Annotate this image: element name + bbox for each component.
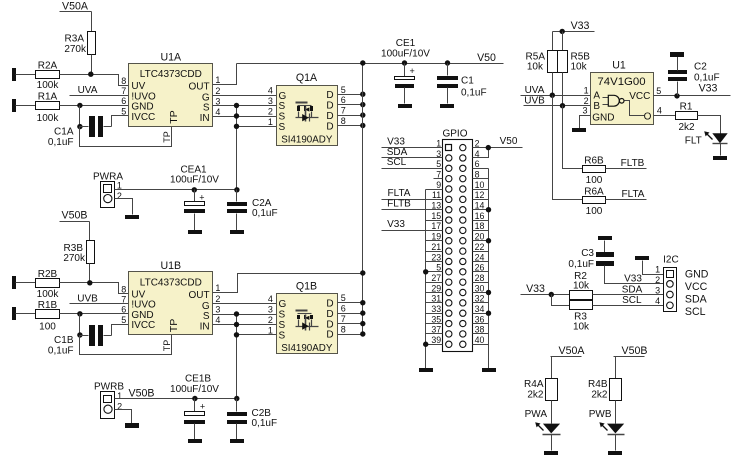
wire V50 rail bbox=[237, 52, 504, 64]
ground LED PWA bbox=[544, 451, 558, 455]
node GPIO pin25 ground bbox=[423, 269, 428, 274]
wire PWRB pin2 to ground bbox=[115, 410, 132, 424]
svg-text:3: 3 bbox=[268, 305, 273, 315]
wire V50B to R4B bbox=[615, 357, 617, 379]
svg-text:V33: V33 bbox=[571, 20, 590, 32]
node GPIO pin14 ground bbox=[486, 207, 491, 212]
U1A pin names bbox=[131, 81, 210, 124]
svg-text:10k: 10k bbox=[527, 61, 544, 72]
svg-text:10k: 10k bbox=[571, 61, 588, 72]
svg-text:7: 7 bbox=[121, 294, 126, 304]
svg-text:S: S bbox=[279, 310, 286, 321]
capacitor C2A 0,1uF bbox=[227, 190, 278, 235]
svg-text:A: A bbox=[593, 91, 600, 102]
node C1B top bbox=[77, 332, 82, 337]
svg-text:V50A: V50A bbox=[62, 0, 89, 12]
node S bus dots B bbox=[234, 311, 239, 337]
svg-text:D: D bbox=[326, 100, 333, 111]
svg-text:1: 1 bbox=[215, 75, 220, 85]
wire S row2 (IN) U1A to Q1A bbox=[213, 116, 277, 118]
svg-text:TP: TP bbox=[168, 319, 180, 332]
LED PWB bbox=[589, 409, 625, 451]
wire V33 to R5B bbox=[562, 32, 564, 51]
resistor R5A 10k bbox=[526, 51, 558, 73]
wire R3A to R2A node bbox=[91, 55, 93, 75]
svg-text:39: 39 bbox=[431, 335, 441, 345]
svg-text:R1B: R1B bbox=[38, 300, 58, 311]
ground U1 bbox=[572, 128, 586, 132]
svg-text:2: 2 bbox=[268, 315, 273, 325]
svg-text:S: S bbox=[279, 101, 286, 112]
connector PWRA bbox=[93, 171, 123, 207]
wire U1 GND pin3 to ground bbox=[580, 116, 591, 129]
svg-text:FLTB: FLTB bbox=[387, 199, 411, 210]
svg-text:4: 4 bbox=[475, 149, 480, 159]
connector GPIO title bbox=[442, 129, 467, 140]
resistor R3B 270k bbox=[63, 241, 94, 265]
svg-text:V50: V50 bbox=[477, 52, 496, 64]
svg-text:V33: V33 bbox=[387, 136, 405, 147]
svg-text:3: 3 bbox=[215, 96, 220, 106]
resistor R6A 100 bbox=[583, 186, 606, 217]
node C1A top bbox=[77, 124, 82, 129]
svg-text:74V1G00: 74V1G00 bbox=[597, 76, 645, 88]
wire R1 to FLT LED bbox=[698, 116, 721, 134]
svg-text:4: 4 bbox=[268, 86, 273, 96]
transistor Q1B SI4190ADY body bbox=[277, 281, 338, 354]
svg-text:28: 28 bbox=[475, 273, 485, 283]
svg-text:SDA: SDA bbox=[685, 293, 708, 305]
svg-text:37: 37 bbox=[431, 325, 441, 335]
svg-text:OUT: OUT bbox=[188, 81, 209, 92]
svg-text:1: 1 bbox=[268, 117, 273, 127]
U1 pin names bbox=[592, 91, 651, 124]
svg-text:16: 16 bbox=[475, 211, 485, 221]
op-amp U1B LTC4373CDD body bbox=[129, 260, 213, 335]
svg-text:4: 4 bbox=[215, 315, 220, 325]
ground GPIO right bbox=[482, 368, 496, 372]
svg-text:2: 2 bbox=[268, 107, 273, 117]
svg-text:8: 8 bbox=[341, 325, 346, 335]
svg-text:V33: V33 bbox=[387, 219, 405, 230]
svg-text:0,1uF: 0,1uF bbox=[568, 259, 594, 270]
svg-text:0,1uF: 0,1uF bbox=[694, 73, 720, 84]
Q1A mosfet symbol bbox=[296, 103, 319, 122]
net label V33 (I2C feed) bbox=[521, 283, 570, 295]
svg-text:14: 14 bbox=[475, 201, 485, 211]
svg-text:2k2: 2k2 bbox=[527, 390, 544, 401]
wire U1 VCC to V33 bbox=[654, 95, 731, 97]
LED PWA bbox=[525, 409, 561, 451]
resistor R1 2k2 bbox=[676, 102, 698, 134]
svg-text:R2A: R2A bbox=[38, 60, 58, 71]
svg-text:100: 100 bbox=[39, 322, 56, 333]
wire I2C pin1 to ground bbox=[643, 261, 664, 275]
svg-text:35: 35 bbox=[431, 314, 441, 324]
wire V50A to R4A bbox=[551, 357, 553, 379]
svg-text:TP: TP bbox=[168, 110, 180, 123]
net label SCL (GPIO pin5) bbox=[387, 157, 407, 168]
svg-text:C2: C2 bbox=[694, 61, 707, 72]
connector stub J-A2 bbox=[12, 99, 36, 112]
svg-text:32: 32 bbox=[475, 294, 485, 304]
svg-text:FLT: FLT bbox=[685, 135, 702, 146]
U1 nand gate symbol bbox=[603, 95, 645, 115]
wire R4A to LED PWA bbox=[551, 401, 553, 424]
net label V50B (PWRB) bbox=[129, 387, 155, 399]
node GPIO pin30 ground bbox=[486, 290, 491, 295]
svg-text:0,1uF: 0,1uF bbox=[252, 418, 278, 429]
svg-text:29: 29 bbox=[431, 283, 441, 293]
svg-text:FLTB: FLTB bbox=[621, 158, 645, 169]
svg-text:100k: 100k bbox=[37, 289, 60, 300]
wire V33 down to R3 bbox=[552, 295, 570, 306]
svg-text:10k: 10k bbox=[573, 321, 590, 332]
node R3B/R2B junction bbox=[87, 280, 92, 285]
net label V33 (VCC) bbox=[699, 83, 718, 95]
wire UVB down to R6B bbox=[563, 106, 583, 169]
capacitor C1B 0,1uF bbox=[48, 325, 129, 357]
wire V50 drain bus vertical bbox=[362, 64, 364, 335]
svg-text:3: 3 bbox=[655, 285, 660, 295]
svg-text:8: 8 bbox=[475, 169, 480, 179]
node R3A/R2A junction bbox=[88, 72, 93, 77]
node R1B/C1B junction bbox=[77, 311, 82, 316]
svg-text:V33: V33 bbox=[526, 283, 545, 295]
svg-text:10k: 10k bbox=[573, 281, 590, 292]
svg-text:V50B: V50B bbox=[129, 387, 155, 399]
power flag V50B (LED) bbox=[614, 345, 648, 357]
Q1B pin numbers bbox=[268, 293, 346, 335]
wire PWRA pin1 to caps bbox=[115, 189, 237, 191]
svg-text:I2C: I2C bbox=[663, 254, 679, 265]
svg-text:R6A: R6A bbox=[584, 186, 604, 197]
svg-text:FLTA: FLTA bbox=[622, 189, 645, 200]
resistor R5B 10k bbox=[558, 51, 591, 73]
svg-text:2: 2 bbox=[117, 191, 122, 201]
svg-text:15: 15 bbox=[431, 211, 441, 221]
svg-text:2k2: 2k2 bbox=[591, 390, 608, 401]
node UVB/R5B junction bbox=[560, 103, 565, 108]
svg-text:GND: GND bbox=[685, 269, 709, 281]
net label V50 (GPIO pin2) bbox=[500, 136, 518, 147]
wire C1A to TP (U1A) bbox=[80, 127, 172, 147]
Q1B pin names bbox=[279, 298, 334, 341]
wire gate G U1A to Q1A bbox=[213, 95, 277, 97]
svg-text:17: 17 bbox=[431, 221, 441, 231]
net label UVA (left) bbox=[70, 85, 129, 96]
resistor R2 10k bbox=[570, 271, 593, 300]
svg-text:B: B bbox=[593, 101, 600, 112]
wire down to C1B bbox=[79, 314, 81, 336]
ground FLT LED bbox=[713, 156, 727, 160]
svg-text:8: 8 bbox=[341, 116, 346, 126]
svg-text:V50: V50 bbox=[500, 136, 518, 147]
ground I2C pin1 bbox=[635, 256, 649, 260]
node drain dots bbox=[360, 92, 365, 129]
wire C1B to TP (U1B) bbox=[80, 335, 172, 355]
svg-text:21: 21 bbox=[431, 242, 441, 252]
svg-text:+: + bbox=[410, 66, 415, 76]
capacitor CE1B 100uF/10V bbox=[170, 374, 219, 443]
label TP (outside U1A) bbox=[162, 131, 172, 143]
node C2A top bbox=[234, 187, 239, 192]
svg-text:7: 7 bbox=[121, 86, 126, 96]
svg-text:TP: TP bbox=[162, 131, 172, 143]
svg-text:GPIO: GPIO bbox=[442, 129, 467, 140]
svg-text:UVA: UVA bbox=[525, 85, 545, 96]
wire GPIO right ground bus bbox=[488, 169, 490, 369]
capacitor C1A 0,1uF bbox=[48, 116, 129, 149]
svg-text:G: G bbox=[279, 91, 287, 102]
svg-text:6: 6 bbox=[121, 96, 126, 106]
svg-text:2: 2 bbox=[584, 96, 589, 106]
svg-text:IVCC: IVCC bbox=[131, 320, 155, 331]
svg-text:3: 3 bbox=[215, 305, 220, 315]
I2C pin labels bbox=[685, 269, 709, 318]
node C2B top bbox=[234, 396, 239, 401]
svg-text:36: 36 bbox=[475, 314, 485, 324]
node GPIO pin39 ground bbox=[423, 342, 428, 347]
resistor R6B 100 bbox=[583, 155, 606, 186]
svg-text:G: G bbox=[279, 299, 287, 310]
wire R4B to LED PWB bbox=[615, 401, 617, 424]
svg-text:5: 5 bbox=[436, 159, 441, 169]
svg-text:270k: 270k bbox=[64, 44, 87, 55]
svg-text:9: 9 bbox=[436, 180, 441, 190]
svg-text:4: 4 bbox=[215, 107, 220, 117]
svg-text:33: 33 bbox=[431, 304, 441, 314]
svg-text:100: 100 bbox=[586, 175, 603, 186]
LED FLT bbox=[685, 131, 728, 155]
U1A pin numbers bbox=[121, 75, 220, 117]
wire S row1 U1A to Q1A bbox=[213, 105, 277, 107]
svg-text:100uF/10V: 100uF/10V bbox=[170, 175, 219, 186]
svg-text:SI4190ADY: SI4190ADY bbox=[281, 135, 333, 146]
Q1A drain stubs to V50 bus bbox=[338, 95, 363, 126]
svg-text:40: 40 bbox=[475, 335, 485, 345]
svg-text:18: 18 bbox=[475, 221, 485, 231]
ground LED PWB bbox=[608, 451, 622, 455]
svg-text:1: 1 bbox=[215, 283, 220, 293]
svg-text:13: 13 bbox=[431, 201, 441, 211]
svg-text:D: D bbox=[326, 330, 333, 341]
svg-text:12: 12 bbox=[475, 190, 485, 200]
svg-text:TP: TP bbox=[162, 340, 172, 352]
power flag V50A (top) bbox=[60, 0, 92, 31]
svg-text:R4B: R4B bbox=[588, 379, 608, 390]
wire source bus down to CEA1 node bbox=[236, 106, 238, 190]
svg-text:SCL: SCL bbox=[685, 306, 706, 318]
GPIO odd pin stubs bbox=[382, 148, 443, 345]
svg-text:5: 5 bbox=[341, 85, 346, 95]
svg-text:1: 1 bbox=[268, 325, 273, 335]
node CEA1 top bbox=[192, 187, 197, 192]
node S bus dots bbox=[234, 103, 239, 129]
svg-text:3: 3 bbox=[436, 149, 441, 159]
svg-text:7: 7 bbox=[341, 106, 346, 116]
svg-text:G: G bbox=[202, 92, 210, 103]
svg-text:0,1uF: 0,1uF bbox=[48, 137, 74, 148]
ground PWRB bbox=[125, 423, 139, 428]
node V33/R5B junction bbox=[560, 29, 565, 34]
node V50 rail dots bbox=[360, 60, 450, 65]
wire PWRB pin1 to caps bbox=[115, 398, 237, 400]
ground GPIO left bbox=[419, 368, 433, 372]
svg-text:100: 100 bbox=[586, 206, 603, 217]
svg-text:100uF/10V: 100uF/10V bbox=[381, 48, 430, 59]
svg-text:S: S bbox=[203, 311, 210, 322]
op-amp U1A LTC4373CDD body bbox=[129, 52, 213, 127]
svg-text:6: 6 bbox=[121, 305, 126, 315]
svg-text:3: 3 bbox=[582, 106, 587, 116]
svg-text:30: 30 bbox=[475, 283, 485, 293]
svg-text:VCC: VCC bbox=[629, 91, 650, 102]
svg-text:GND: GND bbox=[592, 112, 614, 123]
svg-text:4: 4 bbox=[657, 106, 662, 116]
power flag V50A (LED) bbox=[551, 345, 586, 357]
gate U1 74V1G00 body bbox=[591, 60, 654, 125]
resistor R3A 270k bbox=[64, 32, 95, 55]
svg-text:R1A: R1A bbox=[38, 91, 58, 102]
net label UVA (right) bbox=[521, 85, 591, 96]
node drain dots B bbox=[360, 300, 365, 337]
svg-text:1: 1 bbox=[117, 391, 122, 401]
svg-text:S: S bbox=[279, 330, 286, 341]
svg-text:10: 10 bbox=[475, 180, 485, 190]
wire R5B to UVB bbox=[562, 73, 564, 106]
svg-text:UVB: UVB bbox=[524, 96, 545, 107]
wire source bus down to CE1B node bbox=[236, 315, 238, 399]
capacitor C2B 0,1uF bbox=[227, 399, 277, 444]
node GPIO pin2/4 V50 bbox=[486, 145, 491, 150]
net label V33 (GPIO pin1) bbox=[387, 136, 405, 147]
svg-text:8: 8 bbox=[121, 76, 126, 86]
resistor R3 10k bbox=[570, 301, 593, 333]
power flag V50B (left) bbox=[60, 210, 90, 241]
wire gate G U1B to Q1B bbox=[213, 303, 277, 305]
net label UVB (left) bbox=[70, 293, 129, 304]
svg-text:2: 2 bbox=[475, 138, 480, 148]
wire S row3 to Q1A pin1 bbox=[237, 126, 277, 128]
svg-text:20: 20 bbox=[475, 232, 485, 242]
svg-text:D: D bbox=[326, 90, 333, 101]
capacitor C2 0,1uF bbox=[668, 52, 720, 96]
U1B pin names bbox=[131, 290, 210, 333]
svg-text:OUT: OUT bbox=[188, 290, 209, 301]
svg-text:0,1uF: 0,1uF bbox=[461, 87, 487, 98]
resistor R4B 2k2 bbox=[588, 379, 621, 401]
svg-text:11: 11 bbox=[432, 190, 441, 200]
node OUT-B to bus bbox=[360, 270, 365, 275]
svg-text:6: 6 bbox=[475, 159, 480, 169]
svg-text:V33: V33 bbox=[699, 83, 718, 95]
svg-text:2: 2 bbox=[655, 275, 660, 285]
Q1B drain stubs to V50 bus bbox=[338, 303, 363, 335]
svg-text:D: D bbox=[326, 111, 333, 122]
svg-text:V50A: V50A bbox=[559, 345, 586, 357]
svg-text:VCC: VCC bbox=[685, 281, 708, 293]
svg-text:+: + bbox=[199, 192, 204, 202]
svg-text:31: 31 bbox=[431, 294, 441, 304]
transistor Q1A SI4190ADY body bbox=[277, 72, 338, 145]
svg-text:IVCC: IVCC bbox=[131, 112, 155, 123]
wire R3B to R2B node bbox=[89, 264, 91, 283]
wire GPIO left ground bus bbox=[425, 190, 427, 369]
svg-text:2: 2 bbox=[215, 294, 220, 304]
svg-text:5: 5 bbox=[121, 106, 126, 116]
wire S row1 U1B to Q1B bbox=[213, 314, 277, 316]
U1B pin numbers bbox=[121, 283, 220, 325]
svg-text:U1: U1 bbox=[612, 60, 626, 72]
svg-text:D: D bbox=[326, 121, 333, 132]
svg-text:Q1B: Q1B bbox=[296, 281, 317, 293]
wire down to C1A bbox=[79, 106, 81, 127]
wire S row2 (IN) U1B to Q1B bbox=[213, 324, 277, 326]
connector GPIO body (2x20 pins) bbox=[443, 140, 473, 352]
connector stub J-B2 bbox=[12, 307, 36, 320]
wire S row3 to Q1B pin1 bbox=[237, 334, 277, 336]
svg-text:100k: 100k bbox=[37, 80, 60, 91]
svg-text:U1B: U1B bbox=[160, 260, 181, 272]
svg-text:V33: V33 bbox=[624, 274, 642, 285]
svg-text:V50B: V50B bbox=[622, 345, 648, 357]
svg-text:O: O bbox=[644, 111, 652, 122]
svg-text:5: 5 bbox=[341, 293, 346, 303]
GPIO odd pin numbers bbox=[431, 138, 441, 345]
svg-text:4: 4 bbox=[268, 294, 273, 304]
node R1A/C1A junction bbox=[77, 103, 82, 108]
GPIO even pin stubs bbox=[473, 148, 523, 345]
wire R2B to U1B pin8 UV bbox=[60, 283, 129, 294]
wire R1A to U1A pin6 GND bbox=[60, 105, 129, 107]
svg-text:IN: IN bbox=[200, 113, 210, 124]
net label V33 (top right) bbox=[553, 20, 595, 32]
svg-text:S: S bbox=[203, 103, 210, 114]
svg-text:24: 24 bbox=[475, 252, 485, 262]
label TP (outside U1B) bbox=[162, 340, 172, 352]
net label UVB (right) bbox=[524, 96, 591, 107]
capacitor C3 0,1uF bbox=[568, 236, 663, 284]
wire R3 to I2C SCL bbox=[593, 295, 664, 306]
wire R5A to UVA bbox=[552, 73, 554, 96]
node CE1B top bbox=[192, 396, 197, 401]
svg-text:Q1A: Q1A bbox=[296, 72, 318, 84]
wire PWRA pin2 to ground bbox=[115, 199, 133, 215]
svg-text:PWA: PWA bbox=[525, 409, 548, 420]
svg-text:UVB: UVB bbox=[77, 293, 98, 304]
net label V33 (I2C pin2) bbox=[624, 274, 642, 285]
svg-text:PWB: PWB bbox=[589, 409, 612, 420]
net label FLTA (right) bbox=[606, 189, 647, 200]
svg-text:R6B: R6B bbox=[584, 155, 604, 166]
Q1A pin names bbox=[279, 90, 334, 133]
ground PWRA bbox=[125, 215, 139, 219]
svg-text:+: + bbox=[200, 401, 205, 411]
svg-text:S: S bbox=[279, 122, 286, 133]
node V33/R2/R3 junction bbox=[549, 292, 554, 297]
svg-text:C1: C1 bbox=[461, 75, 474, 86]
svg-text:6: 6 bbox=[341, 304, 346, 314]
net label FLTA (GPIO pin11) bbox=[388, 188, 411, 199]
svg-text:270k: 270k bbox=[63, 253, 86, 264]
svg-text:C3: C3 bbox=[581, 248, 594, 259]
svg-text:5: 5 bbox=[656, 86, 661, 96]
svg-text:LTC4373CDD: LTC4373CDD bbox=[140, 69, 202, 80]
svg-text:23: 23 bbox=[431, 252, 441, 262]
svg-text:0,1uF: 0,1uF bbox=[48, 345, 74, 356]
resistor R1A 100k bbox=[36, 91, 60, 124]
